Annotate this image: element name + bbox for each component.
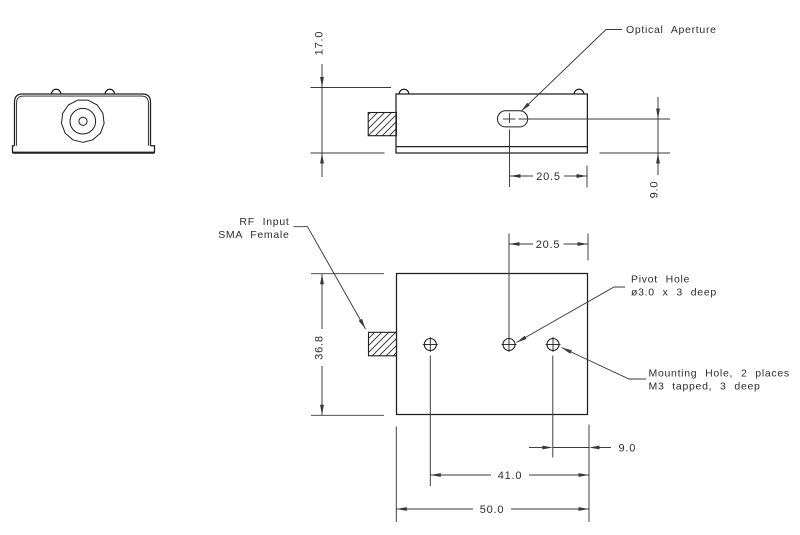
svg-text:Optical Aperture: Optical Aperture — [626, 24, 717, 36]
dim 41.0 dimension line — [430, 474, 491, 476]
side view body rectangle — [396, 94, 587, 153]
optical aperture slot — [498, 111, 528, 127]
dim 36.8 top extension line — [311, 273, 384, 275]
front view body outline (inner wall line) — [17, 96, 149, 146]
RF input leader line — [294, 227, 366, 329]
dim 9.0 (top view) arrows — [542, 446, 553, 450]
dim 20.5 (top view) right extension line — [587, 234, 589, 261]
pivot hole leader arrowhead — [517, 336, 527, 343]
front view left screw bump — [52, 89, 61, 94]
dim 50.0 arrows — [396, 507, 407, 511]
dim 9.0 (side view) arrows — [656, 109, 660, 120]
RF input leader arrowhead — [359, 319, 366, 329]
mounting hole left — [423, 337, 438, 352]
dim 36.8 bottom extension line — [311, 414, 384, 416]
top view body rectangle — [397, 274, 588, 415]
SMA connector body circle — [70, 108, 96, 134]
pivot hole leader line — [517, 287, 626, 343]
dim 20.5 (top view) pivot extension line — [508, 234, 510, 338]
dim 20.5 (top view) dimension line — [509, 243, 533, 245]
front view base flange bottom thick edge — [13, 152, 155, 154]
side view right screw bump — [574, 89, 584, 94]
svg-text:20.5: 20.5 — [536, 239, 561, 251]
svg-text:9.0: 9.0 — [649, 181, 661, 199]
svg-text:50.0: 50.0 — [480, 504, 505, 516]
right edge extension line down — [588, 425, 590, 523]
dim 9.0 (side view) bottom extension line — [600, 152, 671, 154]
optical aperture leader arrowhead — [521, 103, 530, 112]
left hole extension line down — [429, 356, 431, 487]
dim 17.0 bottom extension line — [311, 152, 385, 154]
SMA connector nut outline (front) — [62, 100, 105, 142]
svg-text:41.0: 41.0 — [498, 470, 523, 482]
mounting hole leader arrowhead — [562, 348, 572, 354]
left edge extension line down — [395, 427, 397, 523]
dim 36.8 arrows — [320, 274, 324, 285]
svg-text:RF Input: RF Input — [239, 216, 289, 228]
front view body outline (outer) — [15, 94, 151, 146]
SMA center pin circle — [79, 117, 87, 125]
dim 20.5 (side view) dimension line — [510, 175, 533, 177]
aperture centerline vertical — [509, 113, 511, 123]
optical aperture leader line — [521, 30, 622, 112]
svg-text:20.5: 20.5 — [536, 171, 561, 183]
svg-text:Mounting Hole, 2 places: Mounting Hole, 2 places — [649, 368, 790, 380]
svg-text:36.8: 36.8 — [314, 335, 326, 360]
dim 9.0 (top view) dimension line + outside tails — [529, 447, 543, 449]
dim 20.5 (side view) right extension line — [586, 166, 588, 188]
dim 9.0 (side view) dimension line — [657, 97, 659, 175]
mounting hole right — [546, 337, 561, 352]
side view left screw bump — [399, 89, 409, 94]
dim 41.0 arrows — [430, 473, 441, 477]
mounting hole leader line — [562, 348, 647, 380]
SMA connector side (hatched) — [368, 113, 396, 136]
svg-text:17.0: 17.0 — [314, 31, 326, 56]
svg-text:M3 tapped, 3 deep: M3 tapped, 3 deep — [649, 381, 761, 393]
front view right screw bump — [105, 89, 114, 94]
svg-text:ø3.0 x 3 deep: ø3.0 x 3 deep — [631, 287, 717, 299]
dim 20.5 (top view) arrows — [509, 242, 520, 246]
right hole extension line down — [552, 356, 554, 458]
dim 17.0 arrows — [320, 77, 324, 88]
front view base flange — [13, 146, 155, 153]
dim 17.0 top extension line — [311, 87, 392, 89]
SMA connector top (hatched) — [369, 332, 397, 356]
svg-text:SMA Female: SMA Female — [218, 229, 289, 241]
pivot hole — [502, 337, 517, 352]
dim 17.0 dimension line — [321, 64, 323, 177]
dim 36.8 dimension line — [321, 274, 323, 329]
dim 20.5 (side view) arrows — [510, 174, 521, 178]
aperture centerline horizontal — [503, 118, 516, 120]
svg-text:9.0: 9.0 — [619, 443, 637, 455]
svg-text:Pivot Hole: Pivot Hole — [631, 274, 690, 286]
dim 50.0 dimension line — [396, 508, 473, 510]
side view base plate line — [396, 146, 587, 148]
